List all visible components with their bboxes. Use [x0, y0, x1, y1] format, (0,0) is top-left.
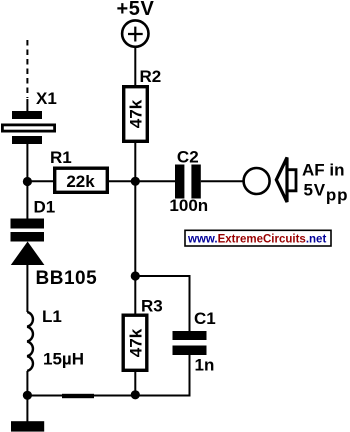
svg-text:100n: 100n [169, 196, 208, 215]
wire C2 to AF terminal [201, 180, 244, 182]
bottom wire thick overlap segment [62, 394, 94, 398]
junction bottom center [131, 390, 140, 399]
svg-text:BB105: BB105 [36, 268, 98, 289]
svg-text:15µH: 15µH [43, 350, 84, 369]
wire C1 to bottom wire [189, 355, 191, 397]
svg-text:X1: X1 [36, 89, 57, 108]
svg-text:D1: D1 [34, 198, 56, 217]
varactor diode D1 [11, 219, 45, 266]
wire R3 to bottom node [134, 371, 136, 397]
svg-text:R3: R3 [141, 297, 163, 316]
svg-text:L1: L1 [42, 307, 62, 326]
wire supply to R2 [134, 47, 136, 86]
wire L1 to ground node [26, 371, 28, 399]
junction node C [131, 271, 140, 280]
svg-text:+5V: +5V [117, 0, 155, 20]
website box [185, 230, 331, 246]
wire D1 to L1 [26, 265, 28, 312]
wire node A to R1 [27, 180, 54, 182]
svg-text:R2: R2 [140, 67, 162, 86]
svg-text:47k: 47k [127, 328, 146, 357]
resistor R1 [55, 168, 108, 192]
wire node C to C1 branch [135, 275, 188, 277]
wire to ground [26, 396, 28, 422]
supply terminal +5V [122, 20, 148, 46]
svg-text:R1: R1 [50, 148, 72, 167]
terminal circle AF [244, 168, 270, 194]
wire R2 to R3 (main vertical) [134, 141, 136, 315]
junction node A [23, 177, 32, 186]
svg-text:22k: 22k [66, 172, 95, 191]
resistor R2 [124, 87, 148, 142]
inductor L1 [27, 312, 33, 371]
wire dashed above X1 [26, 40, 28, 98]
capacitor C2 [175, 165, 201, 199]
ground [11, 421, 44, 431]
svg-text:C2: C2 [177, 147, 199, 166]
svg-text:1n: 1n [195, 356, 215, 375]
junction bottom left [23, 391, 32, 400]
svg-text:C1: C1 [194, 309, 216, 328]
bottom wire [27, 395, 190, 397]
wire crystal to node A [26, 144, 28, 220]
capacitor C1 [173, 331, 207, 355]
wire C1 branch down [189, 275, 191, 332]
crystal X1 [2, 111, 54, 144]
svg-text:www.ExtremeCircuits.net: www.ExtremeCircuits.net [187, 234, 326, 246]
svg-text:47k: 47k [127, 99, 146, 128]
resistor R3 [123, 315, 147, 370]
svg-text:AF in: AF in [302, 161, 345, 180]
wire to crystal [26, 99, 28, 112]
wire R1 to node B [108, 180, 176, 182]
junction node B [131, 177, 140, 186]
AF input arrow symbol [276, 158, 296, 203]
